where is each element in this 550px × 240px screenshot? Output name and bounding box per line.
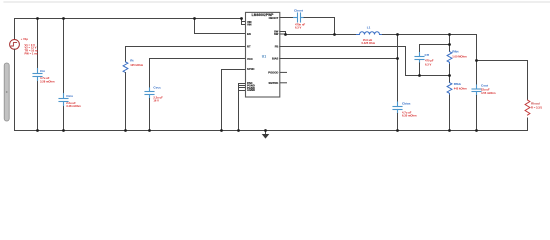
svg-text:VCC: VCC — [247, 57, 253, 61]
wire SW line — [286, 34, 357, 36]
capacitor Cin column wire — [37, 19, 39, 69]
svg-text:Cout: Cout — [481, 83, 488, 87]
svg-text:PW = 1 ms: PW = 1 ms — [25, 51, 39, 55]
wire CBOOT — [280, 17, 294, 19]
svg-text:EN: EN — [247, 32, 251, 36]
svg-text:470 pF: 470 pF — [425, 59, 434, 63]
wire source column bottom — [14, 49, 16, 130]
svg-text:U1: U1 — [262, 55, 266, 59]
resistor Rfbb — [447, 83, 452, 96]
wire SS/TRK stub — [280, 82, 287, 84]
wire RT — [126, 47, 246, 62]
wire Rload branch — [477, 61, 528, 101]
wire top rail — [15, 18, 242, 20]
wire VCC — [150, 59, 246, 89]
capacitor Cvcc — [145, 88, 154, 99]
inductor L1 — [357, 32, 383, 35]
wire SW stubs — [280, 32, 286, 35]
svg-text:Rfbb: Rfbb — [454, 82, 461, 86]
svg-text:R = 3.3/1: R = 3.3/1 — [531, 106, 542, 110]
ground — [265, 131, 267, 135]
svg-text:Cvcc: Cvcc — [153, 86, 161, 90]
svg-text:BIAS: BIAS — [272, 57, 279, 61]
wire SYNC — [222, 70, 246, 131]
svg-text:Cff: Cff — [425, 53, 430, 57]
svg-text:6.3 V: 6.3 V — [295, 25, 301, 29]
capacitor Cinx — [59, 94, 68, 106]
node junction dots — [36, 17, 478, 132]
wire source column top — [14, 19, 16, 40]
svg-text:3.48 mOhm: 3.48 mOhm — [66, 104, 81, 108]
wire Rfbt column — [449, 35, 451, 52]
svg-text:AGND: AGND — [247, 88, 255, 92]
svg-text:4.55 mOhm: 4.55 mOhm — [481, 91, 496, 95]
wire BIAS — [280, 58, 398, 60]
capacitor Cff — [419, 45, 421, 53]
op-amp U1 IC box LM46002PWP — [246, 12, 280, 97]
capacitor Cin — [33, 69, 42, 81]
svg-text:SYNC: SYNC — [247, 67, 255, 71]
wire Vout line — [383, 34, 477, 36]
wire VIN connection — [242, 19, 246, 25]
capacitor Cinx column wire — [63, 19, 65, 94]
svg-text:1.00 MOhm: 1.00 MOhm — [452, 55, 467, 59]
resistor Rt — [123, 62, 128, 73]
svg-text:6.3 V: 6.3 V — [425, 62, 431, 66]
svg-text:FB: FB — [275, 45, 279, 49]
svg-text:3.28 mOhm: 3.28 mOhm — [40, 79, 55, 83]
red value labels — [21, 23, 543, 118]
svg-text:Cboot: Cboot — [294, 9, 303, 13]
wire ground pins bus — [239, 84, 246, 131]
svg-text:Cin: Cin — [40, 69, 45, 73]
window border line — [4, 1, 550, 3]
svg-text:Rfbt: Rfbt — [452, 49, 458, 53]
svg-text:442 kOhm: 442 kOhm — [454, 86, 467, 90]
capacitor Cbias — [393, 102, 402, 114]
wire FB — [280, 47, 450, 76]
svg-text:0.425 Ohm: 0.425 Ohm — [362, 41, 376, 45]
svg-text:CBOOT: CBOOT — [269, 16, 279, 20]
svg-text:16 V: 16 V — [153, 99, 159, 103]
svg-text:Rload: Rload — [531, 101, 540, 105]
svg-text:RT: RT — [247, 45, 251, 49]
svg-text:+ V1p: + V1p — [21, 37, 29, 41]
svg-text:22u uF: 22u uF — [481, 88, 490, 92]
capacitor Cout — [472, 85, 481, 96]
svg-text:SW: SW — [274, 32, 279, 36]
voltage source V1 — [10, 40, 20, 50]
blue component labels — [40, 9, 488, 106]
wire Vout/BIAS column — [397, 35, 399, 103]
svg-text:125 kOhm: 125 kOhm — [130, 63, 143, 67]
resistor Rload — [525, 100, 530, 115]
capacitor Cboot — [294, 13, 305, 22]
bottom rail — [15, 130, 528, 132]
resistor Rfbt — [447, 52, 452, 65]
svg-text:6.35 mOhm: 6.35 mOhm — [402, 113, 417, 117]
svg-text:L1: L1 — [367, 25, 371, 29]
wire Cff top link — [420, 44, 450, 46]
scrollbar handle — [4, 63, 9, 121]
svg-text:Cinx: Cinx — [66, 94, 73, 98]
svg-text:SS/TRK: SS/TRK — [268, 81, 278, 85]
svg-text:Cbias: Cbias — [402, 101, 411, 105]
svg-text:PGOOD: PGOOD — [268, 71, 278, 75]
wire EN — [195, 19, 246, 34]
svg-text:VIN: VIN — [247, 23, 252, 27]
svg-text:Rt: Rt — [130, 59, 133, 63]
IC title and pin labels — [252, 13, 275, 17]
wire Cout column — [476, 35, 478, 86]
wire PGOOD stub — [280, 71, 287, 73]
